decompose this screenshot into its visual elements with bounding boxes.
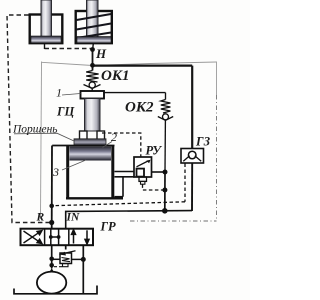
svg-text:Поршень: Поршень [12,124,58,136]
svg-text:R: R [36,212,45,224]
svg-text:3: 3 [52,165,59,179]
svg-text:ОК1: ОК1 [101,68,130,84]
svg-text:IN: IN [66,212,80,224]
svg-text:ОК2: ОК2 [125,100,154,116]
svg-text:Н: Н [95,46,107,61]
svg-text:ГЦ: ГЦ [56,105,76,119]
svg-text:ГР: ГР [100,220,117,234]
svg-text:ГЗ: ГЗ [195,135,211,149]
svg-text:1: 1 [56,86,62,100]
svg-text:2: 2 [111,130,117,144]
svg-text:РУ: РУ [146,144,163,158]
